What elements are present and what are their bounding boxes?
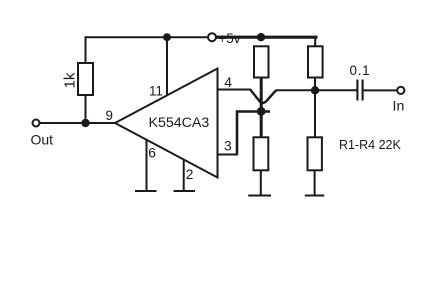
ground pin 6 [135, 190, 157, 192]
wire op-amp pin 4 to transistor emitter [218, 89, 252, 91]
wire top rail from 1k resistor to +5v terminal [86, 37, 209, 63]
wire pin 11 from top rail to op-amp [166, 37, 168, 96]
wire op-amp pin 6 to ground [146, 140, 148, 191]
svg-text:4: 4 [224, 74, 232, 90]
terminal In [397, 87, 404, 94]
op-amp U1 K554CA3 [115, 69, 218, 178]
svg-text:In: In [393, 99, 405, 115]
wire 1k bottom to output node [85, 95, 87, 123]
capacitor 0.1 right plate [362, 80, 364, 101]
svg-text:K554CA3: K554CA3 [149, 115, 210, 131]
wire op-amp pin 3 stub [218, 154, 239, 156]
node junction output [81, 119, 89, 127]
wire R4 bottom to ground [314, 170, 316, 195]
wire pin 3 to base node [237, 112, 270, 155]
resistor R4 lower right 22K [308, 137, 322, 170]
terminal Out [33, 120, 40, 127]
node junction top rail / pin 11 [163, 33, 171, 41]
wire output node to op-amp pin 9 [40, 122, 116, 124]
node junction input rail [311, 86, 319, 94]
ground pin 2 [174, 190, 196, 192]
svg-text:6: 6 [148, 145, 156, 160]
svg-text:3: 3 [224, 139, 232, 154]
wire thick R1 bottom through transistor to node [260, 77, 263, 138]
svg-text:1k: 1k [62, 72, 79, 88]
wire transistor collector to input rail [276, 89, 357, 91]
svg-text:0.1: 0.1 [350, 63, 371, 78]
wire thick supply rail from +5v to R2 top [217, 36, 318, 39]
svg-text:R1-R4 22K: R1-R4 22K [339, 138, 401, 152]
resistor 1k [78, 63, 93, 95]
ground R4 [305, 195, 325, 197]
svg-text:Out: Out [31, 132, 54, 148]
resistor R3 lower left 22K [254, 137, 269, 170]
svg-text:9: 9 [106, 108, 113, 123]
terminal +5v [208, 33, 216, 41]
ground R3 [248, 195, 271, 197]
node junction supply rail over R1 [257, 33, 265, 41]
wire op-amp pin 2 to ground [183, 160, 185, 192]
svg-text:+5v: +5v [218, 31, 240, 46]
wire capacitor to In terminal [364, 89, 398, 91]
wire R2 top stub [314, 37, 316, 46]
resistor R2 upper right 22K [308, 46, 323, 77]
capacitor 0.1 left plate [356, 80, 358, 101]
svg-text:2: 2 [186, 167, 194, 182]
transistor Q1 collector stroke [262, 90, 277, 103]
node junction transistor base [257, 107, 266, 116]
svg-text:11: 11 [149, 84, 163, 99]
resistor R1 upper left 22K [254, 46, 269, 77]
wire R3 bottom to ground [260, 170, 262, 195]
wire R2 bottom to input node [314, 78, 316, 139]
transistor Q1 emitter stroke [250, 90, 261, 103]
